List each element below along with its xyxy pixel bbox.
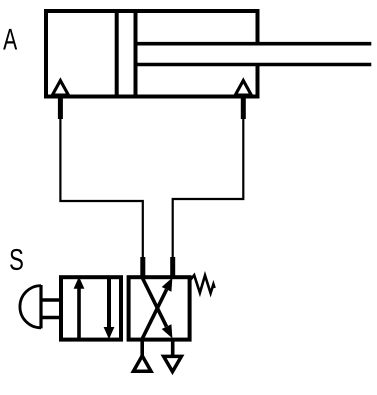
return spring	[190, 275, 215, 293]
valve top-left port stub	[140, 257, 145, 277]
exhaust right stem	[171, 339, 175, 356]
cylinder piston	[117, 11, 136, 97]
label A	[3, 29, 17, 50]
valve crossed arrow down (right box)	[142, 278, 172, 339]
cylinder piston rod	[136, 44, 372, 65]
cylinder right port arrow	[235, 81, 251, 96]
valve S left position box	[61, 277, 121, 339]
valve up arrow (left box)	[74, 277, 85, 339]
label S	[10, 249, 23, 270]
cylinder right port stub	[241, 97, 246, 120]
cylinder left port arrow	[52, 81, 68, 96]
pushbutton actuator	[20, 285, 61, 328]
cylinder A body	[44, 9, 260, 99]
exhaust right triangle (down)	[164, 356, 182, 371]
wire from cylinder left port to valve port	[60, 118, 142, 258]
valve crossed arrow up (right box)	[142, 278, 172, 339]
valve top-right port stub	[170, 257, 175, 277]
exhaust left triangle (up)	[133, 356, 151, 371]
cylinder left port stub	[58, 97, 63, 120]
exhaust left stem	[140, 339, 144, 356]
wire from cylinder right port to valve port	[173, 118, 244, 258]
valve S right position box	[129, 277, 190, 339]
valve down arrow (left box)	[104, 277, 115, 339]
